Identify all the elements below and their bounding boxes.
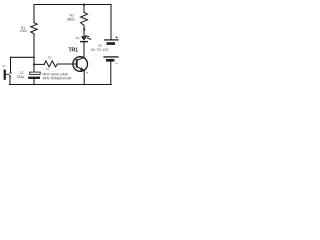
svg-text:+: + bbox=[115, 36, 118, 41]
svg-text:220µ: 220µ bbox=[17, 75, 25, 79]
svg-text:NPN TRANSISTOR: NPN TRANSISTOR bbox=[43, 76, 73, 80]
svg-text:5V TO 12V: 5V TO 12V bbox=[91, 48, 109, 52]
svg-text:D1: D1 bbox=[76, 36, 80, 40]
svg-text:R2: R2 bbox=[48, 55, 52, 59]
svg-text:−: − bbox=[115, 61, 118, 66]
svg-text:680Ω: 680Ω bbox=[67, 17, 75, 21]
svg-text:100k: 100k bbox=[20, 29, 27, 33]
svg-text:S1: S1 bbox=[2, 64, 6, 68]
svg-text:TR1: TR1 bbox=[69, 48, 79, 54]
